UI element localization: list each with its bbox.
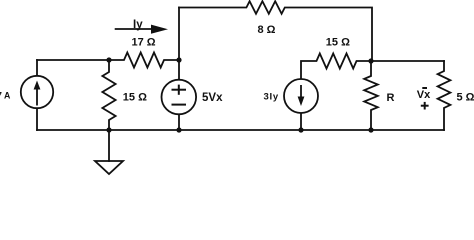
svg-text:5 Ω: 5 Ω (457, 91, 474, 103)
svg-text:8 Ω: 8 Ω (258, 24, 276, 36)
svg-text:7 A: 7 A (0, 90, 11, 100)
svg-text:15 Ω: 15 Ω (123, 91, 147, 103)
svg-text:5Vx: 5Vx (202, 92, 223, 104)
svg-text:Iy: Iy (133, 19, 143, 31)
svg-text:Vx: Vx (417, 89, 431, 101)
svg-text:17 Ω: 17 Ω (132, 37, 156, 49)
svg-text:3Iy: 3Iy (264, 91, 279, 102)
svg-text:15 Ω: 15 Ω (326, 37, 350, 49)
svg-text:R: R (387, 92, 395, 104)
